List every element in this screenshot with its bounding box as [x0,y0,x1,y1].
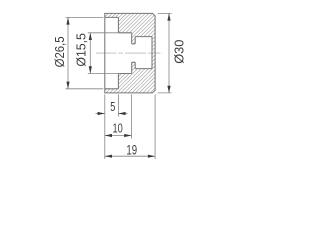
svg-text:5: 5 [110,101,115,115]
counterbore Ø26.5 profile [105,17,119,88]
ext lines Ø30 [158,13,172,93]
pocket profile [135,37,152,69]
dim 19 [105,155,155,157]
svg-text:Ø15,5: Ø15,5 [74,33,88,66]
svg-text:19: 19 [126,143,137,158]
ext lines Ø15.5 [88,33,119,74]
bore Ø15.5 profile [118,33,131,74]
dim line Ø30 [168,13,170,93]
dim line Ø15.5 [89,33,91,74]
ext lines Ø26.5 [66,17,104,88]
centerline [96,52,161,54]
dim line Ø26.5 [67,17,69,88]
bottom extension lines [105,94,155,159]
dim 5 [96,113,105,115]
outer profile [105,13,155,93]
wall centre hole profile [132,44,136,62]
dim 10 [105,135,132,137]
svg-text:Ø26,5: Ø26,5 [52,36,67,67]
svg-text:Ø30: Ø30 [172,40,187,64]
svg-text:10: 10 [113,122,123,136]
section hatch fill [105,13,155,93]
